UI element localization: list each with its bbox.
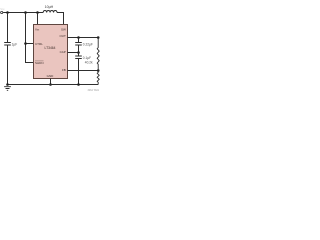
inductor L1 xyxy=(43,10,57,12)
wire: GND pin stub xyxy=(50,79,52,85)
wire: SW drop xyxy=(57,13,64,25)
resistor R2 xyxy=(97,71,99,85)
svg-text:3464 TA01: 3464 TA01 xyxy=(88,89,100,92)
svg-text:40.2k: 40.2k xyxy=(85,61,93,65)
node: junction C1 branch xyxy=(6,11,9,14)
wire: top VIN rail xyxy=(3,12,43,14)
capacitor C2 0.22µF xyxy=(78,38,80,43)
svg-text:1µF: 1µF xyxy=(12,42,18,46)
wire: FB xyxy=(68,70,99,72)
svg-text:0.1µF: 0.1µF xyxy=(83,56,91,60)
svg-text:SHDN: SHDN xyxy=(35,61,44,65)
wire: CAP pin xyxy=(68,52,79,54)
node: cap chain ground junction xyxy=(77,83,80,86)
node: junction VIN pin branch xyxy=(36,11,39,14)
capacitor C3 0.1µF xyxy=(78,53,80,57)
background xyxy=(0,0,100,100)
node: GND junction xyxy=(49,83,52,86)
capacitor C1 1µF xyxy=(7,13,9,43)
wire: VIN pin drop xyxy=(37,13,39,25)
svg-text:SW: SW xyxy=(61,27,66,31)
wire: OUT xyxy=(68,37,99,39)
wire: CTRL stub xyxy=(26,43,34,45)
svg-text:10µH: 10µH xyxy=(45,5,54,9)
resistor R1 xyxy=(97,38,99,71)
node: OUT cap junction xyxy=(77,36,80,39)
input terminal VIN xyxy=(1,11,3,13)
svg-text:CAP: CAP xyxy=(60,50,66,54)
node: junction CTRL/SHDN branch xyxy=(24,11,27,14)
node: OUT terminal xyxy=(97,36,100,39)
wire: ground rail xyxy=(8,84,99,86)
ground symbol xyxy=(4,87,11,91)
svg-text:GND: GND xyxy=(47,74,55,78)
svg-text:OUT: OUT xyxy=(59,34,66,38)
svg-text:LT3464: LT3464 xyxy=(45,46,56,50)
wire: CTRL/SHDN branch vertical xyxy=(26,13,34,63)
svg-text:FB: FB xyxy=(62,68,66,72)
node: ground rail left junction xyxy=(6,83,9,86)
node: CTRL junction xyxy=(24,42,27,45)
svg-text:0.22µF: 0.22µF xyxy=(83,42,93,46)
node: CAP junction xyxy=(77,51,80,54)
node: FB junction xyxy=(97,69,100,72)
IC U1 LT3464 body xyxy=(34,25,68,79)
svg-text:CTRL: CTRL xyxy=(35,42,43,46)
